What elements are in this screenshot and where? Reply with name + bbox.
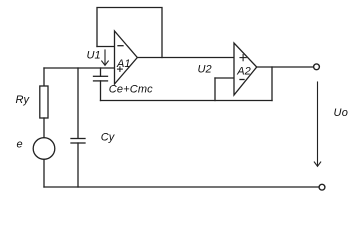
capacitor Ce+Cmc bottom lead: [100, 81, 102, 101]
arrow Uo (output voltage arrow): [317, 82, 319, 165]
svg-text:Cy: Cy: [101, 132, 116, 144]
wire feedback loop A1 (top rectangle): [97, 8, 162, 58]
wire bottom node to A2 feedback: [101, 100, 273, 102]
wire left branch top: [43, 68, 45, 86]
plus sign A1: [118, 68, 123, 70]
svg-text:e: e: [17, 139, 23, 151]
terminal top output: [314, 64, 320, 70]
capacitor Cy bottom lead: [77, 143, 79, 187]
wire source to bottom rail: [43, 159, 45, 187]
op-amp U2 A2: [234, 43, 257, 95]
capacitor Ce+Cmc plates: [94, 75, 108, 77]
svg-text:Uo: Uo: [334, 107, 349, 119]
wire A2 feedback left riser: [214, 78, 216, 101]
capacitor Ce+Cmc top lead: [100, 68, 102, 76]
wire main input node to A1 non-inverting input: [44, 67, 115, 69]
terminal bottom output: [319, 184, 325, 190]
svg-text:Ce+Cmc: Ce+Cmc: [109, 84, 153, 96]
arrow U1 (down arrow between A1 inputs): [104, 50, 106, 65]
source e: [33, 138, 55, 160]
svg-text:U1: U1: [87, 50, 101, 62]
svg-text:Ry: Ry: [16, 94, 31, 106]
wire A1 output to A2 non-inverting input: [137, 57, 234, 59]
op-amp U1 A1: [115, 31, 138, 84]
wire A1 inverting input: [97, 46, 115, 48]
wire resistor to source: [43, 118, 45, 138]
plus sign A2: [240, 57, 246, 59]
wire A2 feedback right riser: [271, 67, 273, 101]
svg-text:U2: U2: [198, 64, 212, 76]
wire bottom rail: [44, 186, 319, 188]
minus sign A2: [240, 79, 244, 81]
minus sign A1: [118, 45, 123, 47]
capacitor Cy plates: [71, 138, 85, 140]
svg-text:A2: A2: [236, 66, 250, 78]
svg-text:A1: A1: [116, 58, 130, 70]
resistor Ry: [40, 86, 48, 118]
capacitor Cy top lead: [77, 68, 79, 138]
wire A2 output: [257, 66, 314, 68]
wire A2 inverting input: [215, 77, 234, 79]
